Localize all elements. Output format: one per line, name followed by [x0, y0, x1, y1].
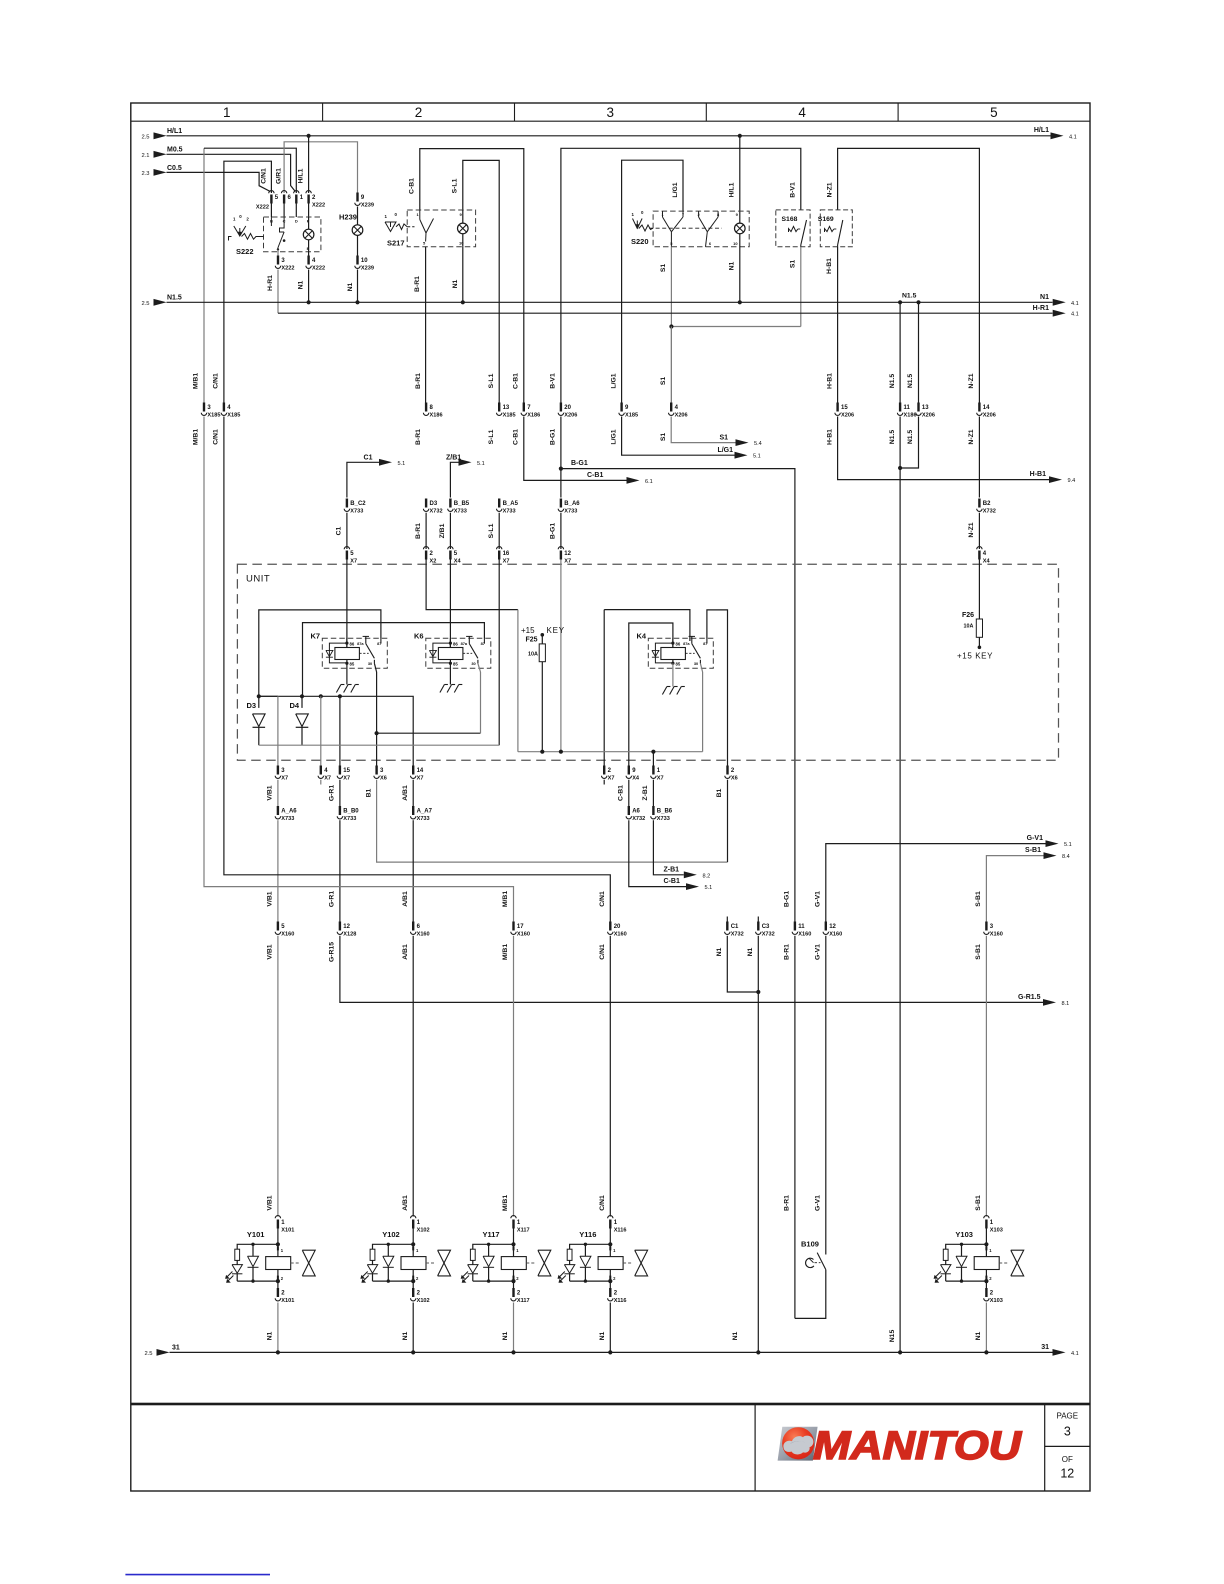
connector X222 pin 1	[294, 191, 299, 194]
svg-text:X732: X732	[430, 509, 443, 515]
svg-text:A6: A6	[632, 809, 640, 815]
wire G-V1 drop to B109	[825, 936, 827, 1255]
wire K6 pin 87 riser rail	[303, 623, 485, 697]
svg-text:X239: X239	[361, 266, 374, 272]
svg-text:S1: S1	[660, 433, 667, 442]
connector X733 pin B_A6	[560, 499, 562, 508]
valve Y101 coil	[277, 1244, 279, 1256]
svg-text:X185: X185	[227, 413, 240, 419]
wire C/N1 long feed	[224, 417, 610, 922]
svg-text:X222: X222	[256, 205, 269, 211]
switch S169	[818, 210, 853, 247]
svg-text:B-R1: B-R1	[415, 523, 422, 539]
wire K4 pin 87 to B1 out	[707, 610, 728, 766]
connector X160 pin 11	[794, 922, 796, 931]
svg-text:Y103: Y103	[955, 1230, 973, 1239]
wire H-R1 from S222	[277, 270, 279, 314]
svg-text:C-B1: C-B1	[587, 472, 603, 479]
wire H-B1 below S169	[837, 247, 839, 403]
svg-text:M/B1: M/B1	[502, 944, 509, 960]
connector 1 X102	[411, 1216, 416, 1219]
junction on 31 rail	[984, 1350, 988, 1354]
svg-text:11: 11	[904, 405, 911, 411]
svg-text:S1: S1	[719, 435, 728, 442]
svg-text:3: 3	[1064, 1425, 1071, 1439]
svg-text:S-L1: S-L1	[488, 523, 495, 538]
svg-text:H/L1: H/L1	[167, 128, 182, 135]
svg-text:C/N1: C/N1	[599, 1195, 606, 1211]
solenoid valve Y101	[225, 1216, 315, 1305]
svg-text:F25: F25	[526, 637, 538, 644]
connector X732 pin D3	[425, 499, 427, 508]
drawing frame	[131, 103, 1090, 1403]
svg-text:C/N1: C/N1	[213, 373, 220, 389]
svg-text:20: 20	[614, 924, 621, 930]
connector 2 X102	[412, 1281, 414, 1288]
svg-text:L/G1: L/G1	[610, 429, 617, 444]
wire Z/B1 branch with arrow 5.1	[450, 462, 458, 497]
wire D3 to K7 pin 87	[259, 610, 381, 696]
svg-text:G/R1: G/R1	[275, 168, 282, 184]
wire B-R1 drop to B109	[794, 936, 796, 1319]
wire L/G1 riser to S220	[622, 160, 683, 402]
svg-text:4.1: 4.1	[1071, 1351, 1079, 1357]
svg-text:6.1: 6.1	[645, 479, 653, 485]
valve Y117 flyback diode	[488, 1244, 490, 1256]
wire B-R1 jog to +15 rail	[426, 560, 518, 610]
svg-text:12: 12	[343, 924, 350, 930]
svg-text:D4: D4	[290, 701, 300, 710]
svg-text:Y101: Y101	[247, 1230, 265, 1239]
svg-text:K7: K7	[311, 632, 321, 641]
svg-text:86: 86	[676, 642, 681, 647]
svg-text:N1: N1	[716, 947, 723, 956]
connector X206 pin 20	[560, 403, 562, 412]
wire C1 to K7 coil	[346, 560, 348, 648]
connector X222 pin 5	[269, 191, 274, 194]
svg-text:M/B1: M/B1	[502, 891, 509, 907]
wire C-B1 branch with arrow 6.1	[524, 417, 627, 481]
svg-text:N1: N1	[1040, 294, 1049, 301]
svg-text:A/B1: A/B1	[402, 785, 409, 801]
valve Y103 top node	[984, 1242, 988, 1246]
UNIT pin 1 X7	[652, 766, 654, 775]
valve Y117 coil	[513, 1244, 515, 1256]
connector X733 pin B_B0	[339, 780, 341, 806]
svg-text:30: 30	[471, 661, 475, 666]
svg-text:X117: X117	[517, 1298, 530, 1304]
connector X733 pin A_A7	[412, 780, 414, 806]
svg-text:X7: X7	[608, 776, 615, 782]
svg-text:11: 11	[798, 924, 805, 930]
svg-text:X101: X101	[281, 1227, 294, 1233]
svg-text:B-G1: B-G1	[784, 891, 791, 907]
svg-text:8.1: 8.1	[1062, 1001, 1070, 1007]
svg-text:4.1: 4.1	[1071, 312, 1079, 318]
svg-text:X116: X116	[614, 1298, 627, 1304]
wire K6 switch 30 drop	[478, 663, 481, 672]
wire N1 below S-L1 lamp	[462, 247, 464, 302]
svg-text:H-B1: H-B1	[1030, 471, 1046, 478]
svg-text:X206: X206	[922, 413, 935, 419]
wire N1.5 pair join	[900, 417, 918, 469]
wire M/B1 drop to Y117	[513, 936, 515, 1217]
svg-text:X185: X185	[625, 413, 638, 419]
wire K4 switch 30 drop	[700, 663, 702, 672]
svg-text:M/B1: M/B1	[193, 429, 200, 445]
fuse F25	[521, 626, 565, 752]
svg-text:C/N1: C/N1	[599, 891, 606, 907]
valve Y116 coil	[609, 1244, 611, 1256]
svg-text:M/B1: M/B1	[502, 1195, 509, 1211]
svg-text:S220: S220	[631, 237, 649, 246]
svg-text:V/B1: V/B1	[267, 891, 274, 906]
svg-text:+15 KEY: +15 KEY	[957, 652, 993, 661]
connector X733 pin B_A5	[498, 499, 500, 508]
valve Y116 flyback diode	[584, 1244, 586, 1256]
svg-text:X206: X206	[675, 413, 688, 419]
wire M/B1 long feed	[204, 417, 514, 922]
connector X222 pin 6	[281, 191, 286, 194]
svg-text:S168: S168	[782, 216, 798, 223]
connector 2 X117	[513, 1281, 515, 1288]
svg-text:B-R1: B-R1	[784, 944, 791, 960]
wire V/B1 drop	[277, 696, 279, 765]
wire N-Z1 riser to S169	[838, 148, 980, 402]
svg-text:5.1: 5.1	[477, 461, 485, 467]
svg-text:5.1: 5.1	[398, 461, 406, 467]
svg-text:X733: X733	[657, 816, 670, 822]
diode return rail	[259, 744, 499, 746]
svg-text:X206: X206	[983, 413, 996, 419]
svg-text:X206: X206	[841, 413, 854, 419]
svg-text:Y116: Y116	[579, 1230, 596, 1239]
svg-text:K4: K4	[637, 632, 647, 641]
svg-text:N-Z1: N-Z1	[826, 182, 833, 197]
svg-text:D: D	[295, 218, 298, 223]
wire S-B1 with arrow 8.4	[986, 856, 1043, 922]
svg-text:B_C2: B_C2	[350, 501, 366, 507]
svg-text:15: 15	[841, 405, 848, 411]
valve Y116 bottom node	[608, 1279, 612, 1283]
svg-text:4.1: 4.1	[1069, 134, 1077, 140]
wire H-B1 branch with arrow 9.4	[838, 417, 1049, 480]
svg-text:C-B1: C-B1	[664, 878, 680, 885]
svg-text:B-G1: B-G1	[550, 429, 557, 445]
svg-text:OF: OF	[1062, 1455, 1073, 1464]
svg-text:S217: S217	[387, 238, 405, 247]
connector X733 pin B_B6	[652, 780, 654, 806]
svg-text:X185: X185	[503, 413, 516, 419]
svg-text:M0.5: M0.5	[167, 147, 183, 154]
svg-text:9.4: 9.4	[1068, 478, 1076, 484]
svg-text:G-V1: G-V1	[815, 1195, 822, 1211]
svg-text:G-R1: G-R1	[329, 891, 336, 907]
svg-text:85: 85	[350, 662, 355, 667]
svg-text:K6: K6	[414, 632, 424, 641]
valve Y102 LED branch	[373, 1244, 414, 1249]
S222 internal lever	[270, 217, 272, 226]
wire B-G1 junction and branch	[560, 417, 562, 498]
wire G/R1 link to H239	[284, 142, 357, 193]
svg-text:A/B1: A/B1	[402, 944, 409, 960]
switch S222	[229, 191, 326, 272]
svg-text:N1.5: N1.5	[907, 374, 914, 389]
svg-text:N1: N1	[347, 282, 354, 291]
svg-text:2: 2	[415, 105, 423, 120]
valve Y117 top node	[511, 1242, 515, 1246]
svg-text:X160: X160	[614, 932, 627, 938]
valve Y102 flyback diode	[387, 1244, 389, 1256]
UNIT pin 3 X6	[375, 766, 377, 775]
svg-text:87a: 87a	[357, 641, 364, 646]
svg-text:V/B1: V/B1	[267, 1195, 274, 1210]
wire N1.5 pair risers	[899, 302, 901, 402]
svg-text:A/B1: A/B1	[402, 1195, 409, 1211]
svg-text:X160: X160	[281, 932, 294, 938]
svg-text:M/B1: M/B1	[193, 373, 200, 389]
svg-text:B1: B1	[716, 788, 723, 797]
svg-text:X103: X103	[990, 1298, 1003, 1304]
svg-text:86: 86	[453, 642, 458, 647]
svg-text:10A: 10A	[964, 624, 974, 630]
wire S1 below S168	[800, 247, 802, 327]
connector X160 pin 20	[609, 922, 611, 931]
UNIT pin 16 X7	[497, 547, 502, 550]
svg-text:N1: N1	[599, 1331, 606, 1340]
svg-text:H239: H239	[339, 213, 357, 222]
svg-text:X222: X222	[281, 266, 294, 272]
valve Y101 flyback diode	[252, 1244, 254, 1256]
wire B-G1 through UNIT	[560, 560, 562, 752]
svg-text:12: 12	[564, 551, 571, 557]
svg-text:85: 85	[676, 662, 681, 667]
svg-text:16: 16	[503, 551, 510, 557]
valve Y116 top node	[608, 1242, 612, 1246]
connector X160 pin 6	[412, 922, 414, 931]
svg-text:2.5: 2.5	[144, 1351, 152, 1357]
valve Y101 LED branch	[237, 1244, 278, 1249]
svg-text:Z-B1: Z-B1	[642, 785, 649, 800]
svg-text:H-B1: H-B1	[826, 373, 833, 389]
svg-text:13: 13	[503, 405, 510, 411]
svg-text:X186: X186	[904, 413, 917, 419]
valve returns to 31 rail	[277, 1303, 279, 1353]
valve Y117 hydraulic symbol	[526, 1262, 536, 1264]
svg-text:X7: X7	[343, 776, 350, 782]
svg-text:X160: X160	[990, 932, 1003, 938]
svg-text:31: 31	[172, 1345, 180, 1352]
svg-text:B-R1: B-R1	[415, 429, 422, 445]
svg-text:Y117: Y117	[483, 1230, 500, 1239]
wire C-B1 riser over S217	[420, 149, 524, 403]
valve Y117 bottom node	[511, 1279, 515, 1283]
svg-text:31: 31	[1041, 1344, 1049, 1351]
svg-text:S1: S1	[789, 260, 796, 269]
svg-text:X206: X206	[564, 413, 577, 419]
junction on 31 rail	[411, 1350, 415, 1354]
svg-text:B_A6: B_A6	[564, 501, 580, 507]
svg-text:X160: X160	[417, 932, 430, 938]
svg-text:S1: S1	[660, 377, 667, 386]
fuse F26	[957, 560, 993, 661]
svg-text:3: 3	[607, 105, 615, 120]
svg-text:B_B6: B_B6	[657, 809, 673, 815]
svg-text:N15: N15	[889, 1330, 896, 1343]
svg-text:V/B1: V/B1	[267, 944, 274, 959]
valve Y103 hydraulic symbol	[999, 1262, 1009, 1264]
wire G-R1 to X128	[339, 820, 341, 921]
svg-text:A/B1: A/B1	[402, 891, 409, 907]
junction on 31 rail	[898, 1350, 902, 1354]
svg-text:H/L1: H/L1	[297, 168, 304, 183]
wire 15/X7 G-R1	[339, 696, 341, 765]
svg-text:5.4: 5.4	[754, 441, 762, 447]
valve Y103 bottom node	[984, 1279, 988, 1283]
switch S217 with lamp	[385, 210, 476, 247]
svg-text:N1: N1	[402, 1331, 409, 1340]
svg-text:14: 14	[417, 768, 424, 774]
wire C/N1 drop to Y116	[609, 936, 611, 1217]
pressure switch B109	[795, 1240, 826, 1319]
svg-text:+15: +15	[521, 626, 535, 635]
svg-text:H-R1: H-R1	[267, 275, 274, 291]
svg-text:2.3: 2.3	[141, 171, 149, 177]
svg-text:8.4: 8.4	[1062, 854, 1070, 860]
svg-text:B-R1: B-R1	[784, 1195, 791, 1211]
lamp H239	[339, 193, 374, 303]
wire N-Z1 to UNIT	[978, 417, 980, 498]
svg-text:S-L1: S-L1	[452, 178, 459, 193]
svg-text:X733: X733	[343, 816, 356, 822]
UNIT pin 2 X6	[726, 766, 728, 775]
svg-text:X7: X7	[350, 558, 357, 564]
relay K4	[637, 632, 714, 669]
wire 3/X7 branch from G-R1 rail	[259, 695, 278, 697]
svg-text:H-B1: H-B1	[826, 429, 833, 445]
svg-text:S-L1: S-L1	[488, 429, 495, 444]
svg-text:B109: B109	[801, 1240, 819, 1249]
svg-text:N1.5: N1.5	[907, 430, 914, 445]
svg-text:H/L1: H/L1	[728, 182, 735, 197]
svg-text:17: 17	[517, 924, 524, 930]
svg-text:X732: X732	[632, 816, 645, 822]
svg-text:X732: X732	[731, 932, 744, 938]
svg-text:X4: X4	[983, 558, 991, 564]
svg-text:86: 86	[350, 642, 355, 647]
K4 coil ground	[672, 663, 674, 686]
valve Y116 hydraulic symbol	[623, 1262, 633, 1264]
solenoid valve Y116	[558, 1216, 648, 1305]
valve Y103 LED branch	[946, 1244, 987, 1249]
svg-text:4.1: 4.1	[1071, 301, 1079, 307]
wire C1 branch with arrow 5.1	[347, 462, 379, 497]
svg-text:X733: X733	[281, 816, 294, 822]
connector X732 pin A6	[628, 780, 630, 806]
connector X186 pin 11	[899, 403, 901, 412]
svg-text:X103: X103	[990, 1227, 1003, 1233]
connector X186 pin 8	[425, 403, 427, 412]
wire H/L1 drop to S222 pin 2	[307, 134, 311, 138]
K6 coil ground	[449, 663, 451, 684]
svg-text:X733: X733	[350, 509, 363, 515]
UNIT pin 5 X7	[344, 547, 349, 550]
svg-text:X185: X185	[207, 413, 220, 419]
connector X186 pin 7	[523, 403, 525, 412]
valve Y101 hydraulic symbol	[291, 1262, 301, 1264]
valve Y101 top node	[276, 1242, 280, 1246]
svg-text:X7: X7	[281, 776, 288, 782]
svg-text:N1.5: N1.5	[167, 295, 182, 302]
svg-text:X4: X4	[632, 776, 640, 782]
svg-text:X102: X102	[417, 1298, 430, 1304]
svg-text:G-V1: G-V1	[1027, 835, 1043, 842]
wire A/B1 drop to Y102	[412, 936, 414, 1217]
connector X222 pin 3	[277, 252, 279, 256]
svg-text:X7: X7	[657, 776, 664, 782]
wire B1 right drop	[727, 780, 729, 862]
svg-text:1: 1	[223, 105, 231, 120]
wire B-V1 riser to S168	[561, 148, 801, 402]
svg-text:N1: N1	[747, 947, 754, 956]
svg-text:X733: X733	[564, 509, 577, 515]
svg-text:N-Z1: N-Z1	[968, 522, 975, 537]
svg-text:5: 5	[990, 105, 998, 120]
svg-text:5.1: 5.1	[1064, 842, 1072, 848]
svg-text:X222: X222	[312, 202, 325, 208]
wire 2/X7 to K4 87a	[604, 610, 690, 641]
footer title block	[131, 1405, 1090, 1491]
solenoid valve Y103	[934, 1216, 1024, 1305]
wire S-L1 riser over lamp	[463, 160, 499, 402]
svg-text:85: 85	[453, 662, 458, 667]
svg-text:X733: X733	[454, 509, 467, 515]
svg-text:5.1: 5.1	[705, 885, 713, 891]
wire V/B1 drop to Y101	[277, 936, 279, 1217]
svg-text:Z/B1: Z/B1	[439, 523, 446, 538]
connector X222 pin 2	[306, 191, 311, 194]
svg-text:N1: N1	[732, 1331, 739, 1340]
switch S168	[776, 210, 810, 247]
connector X222 pin 4	[308, 252, 310, 256]
switch S220 with lamp	[631, 210, 749, 302]
svg-text:S-B1: S-B1	[975, 1195, 982, 1211]
svg-text:10: 10	[733, 241, 738, 246]
valve Y116 LED branch	[570, 1244, 611, 1249]
UNIT pin 14 X7	[412, 766, 414, 775]
svg-text:B-R1: B-R1	[414, 276, 421, 292]
svg-text:X102: X102	[417, 1227, 430, 1233]
S220 lamp	[735, 223, 746, 234]
svg-text:N1: N1	[452, 279, 459, 288]
svg-text:N1: N1	[267, 1331, 274, 1340]
svg-text:B-R1: B-R1	[415, 373, 422, 389]
connector X733 pin B_B5	[449, 499, 451, 508]
wire S1 branch with arrow 5.4	[671, 417, 735, 443]
svg-text:B-G1: B-G1	[550, 523, 557, 539]
svg-text:S-B1: S-B1	[975, 944, 982, 960]
connector X185 pin 3	[203, 403, 205, 412]
connector X206 pin 14	[978, 403, 980, 412]
G-R1 output rail in UNIT	[259, 696, 413, 765]
valve Y102 hydraulic symbol	[426, 1262, 436, 1264]
connector 2 X103	[985, 1281, 987, 1288]
connector X160 pin 12	[825, 922, 827, 931]
wire V/B1 to X160	[277, 820, 279, 921]
svg-text:UNIT: UNIT	[246, 574, 270, 585]
svg-text:C/N1: C/N1	[261, 168, 268, 184]
solenoid valve Y102	[360, 1216, 450, 1305]
